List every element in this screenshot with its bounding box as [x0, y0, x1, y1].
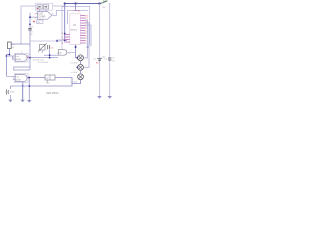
wire CP row	[29, 78, 72, 84]
wire parallel pair	[14, 67, 30, 70]
buzzer BZ1	[6, 86, 14, 99]
svg-text:4069: 4069	[16, 59, 22, 61]
ground left 2	[20, 100, 24, 103]
crystal mark	[38, 6, 41, 7]
wire resistor to rail	[11, 43, 30, 45]
svg-text:L0-10V: L0-10V	[71, 63, 78, 65]
wire IC bottom to lamps	[76, 45, 78, 58]
wire stub above G1	[21, 52, 23, 55]
gate G1 selection rect	[14, 53, 28, 62]
lamp L1	[71, 55, 84, 65]
node dot left bus	[9, 54, 11, 56]
wire op-amp inputs	[30, 13, 38, 17]
wire left bus	[6, 55, 9, 77]
capacitor C4	[104, 57, 115, 62]
svg-text:LED:RING: LED:RING	[46, 91, 59, 95]
capacitor C2	[28, 27, 34, 37]
gate G2	[13, 75, 30, 82]
wire G4 output	[67, 51, 76, 53]
svg-text:LM3: LM3	[38, 14, 43, 16]
IC U2 left pin numbers	[62, 33, 64, 45]
gate G1	[13, 54, 30, 61]
node dot gate2 stub	[22, 85, 24, 87]
wire after switch down right side	[109, 4, 110, 97]
svg-text:1k 10k 0.01: 1k 10k 0.01	[33, 59, 45, 61]
node dot op-amp input	[29, 16, 31, 18]
svg-text:4069: 4069	[16, 80, 22, 82]
wire gate1 out	[27, 57, 30, 59]
svg-text:[A]: [A]	[103, 6, 106, 9]
wire gate1 inputs	[6, 56, 15, 59]
IC U2 right pin numbers	[85, 15, 88, 45]
lamp L2	[71, 64, 84, 74]
potentiometer P1	[38, 44, 47, 54]
switch S1	[101, 0, 108, 9]
svg-text:1kHz: 1kHz	[10, 92, 15, 94]
wire gate2 out to ground rail	[27, 78, 29, 100]
wire mid horizontal	[30, 50, 58, 58]
svg-text:LM3914: LM3914	[70, 30, 78, 32]
node dot under IC	[75, 46, 77, 48]
svg-text:COMP: COMP	[38, 17, 45, 19]
node dot at IC left	[64, 33, 66, 35]
ground right 2	[107, 96, 112, 99]
subcircuit box inner	[68, 11, 88, 25]
svg-text:CP: CP	[46, 78, 50, 80]
node junction dot C	[98, 2, 100, 4]
node junction dot A	[64, 2, 66, 4]
IC U2 body	[70, 14, 81, 45]
IC U2 right pins	[80, 16, 85, 44]
node junction dot D	[64, 39, 66, 41]
wire top rail left	[21, 6, 65, 44]
lamp L3	[71, 74, 84, 84]
connector pin top	[74, 10, 77, 12]
wire lamp chain	[80, 61, 82, 74]
svg-text:D1 0.01uF: D1 0.01uF	[38, 62, 49, 64]
wire dark vertical from node A	[65, 4, 67, 41]
node dot mid rail top	[29, 23, 31, 25]
wire into IC pin row	[56, 39, 64, 41]
node dot mid bus	[29, 57, 31, 59]
node dots lamp chain	[76, 57, 78, 59]
node dots mid	[49, 54, 51, 56]
svg-text:4D: 4D	[59, 52, 62, 54]
mid rail	[29, 13, 31, 70]
battery V1	[93, 56, 106, 64]
ground left 3	[27, 100, 31, 103]
ground right 1	[97, 96, 102, 99]
oscillator block X1	[37, 5, 49, 12]
counter box CP1	[45, 75, 55, 80]
label box under op-amp	[33, 20, 43, 24]
middle cluster box	[30, 41, 62, 50]
gate G4	[58, 50, 66, 56]
oscillator enclosure	[36, 3, 53, 10]
wire battery rail	[99, 4, 101, 97]
wire top rail right	[65, 4, 100, 7]
label small above title	[47, 80, 49, 82]
resistor R1	[8, 42, 16, 55]
wire lamp bottom out	[29, 80, 81, 86]
gate G2 selection rect	[14, 74, 28, 83]
IC U2 left pins	[64, 35, 70, 43]
wire stub node B down	[75, 4, 77, 10]
ground left 1	[8, 100, 12, 103]
wire bottom rail	[10, 85, 29, 87]
node dot feed	[87, 46, 89, 48]
node dot bottom rail	[28, 85, 30, 87]
op-amp U1	[35, 11, 55, 19]
node dot box top	[56, 40, 58, 42]
wire gate2 bottom stub	[22, 82, 24, 100]
svg-text:L0-10V: L0-10V	[71, 72, 78, 74]
node junction dot B	[75, 2, 77, 4]
capacitor C3	[48, 45, 54, 50]
wire from op-amp corner	[53, 10, 65, 15]
wire gate2 ground stub	[22, 84, 24, 99]
wire gate2 inputs	[6, 76, 15, 79]
wire lamp feeds right side	[83, 20, 87, 58]
subcircuit box outer	[62, 7, 90, 44]
